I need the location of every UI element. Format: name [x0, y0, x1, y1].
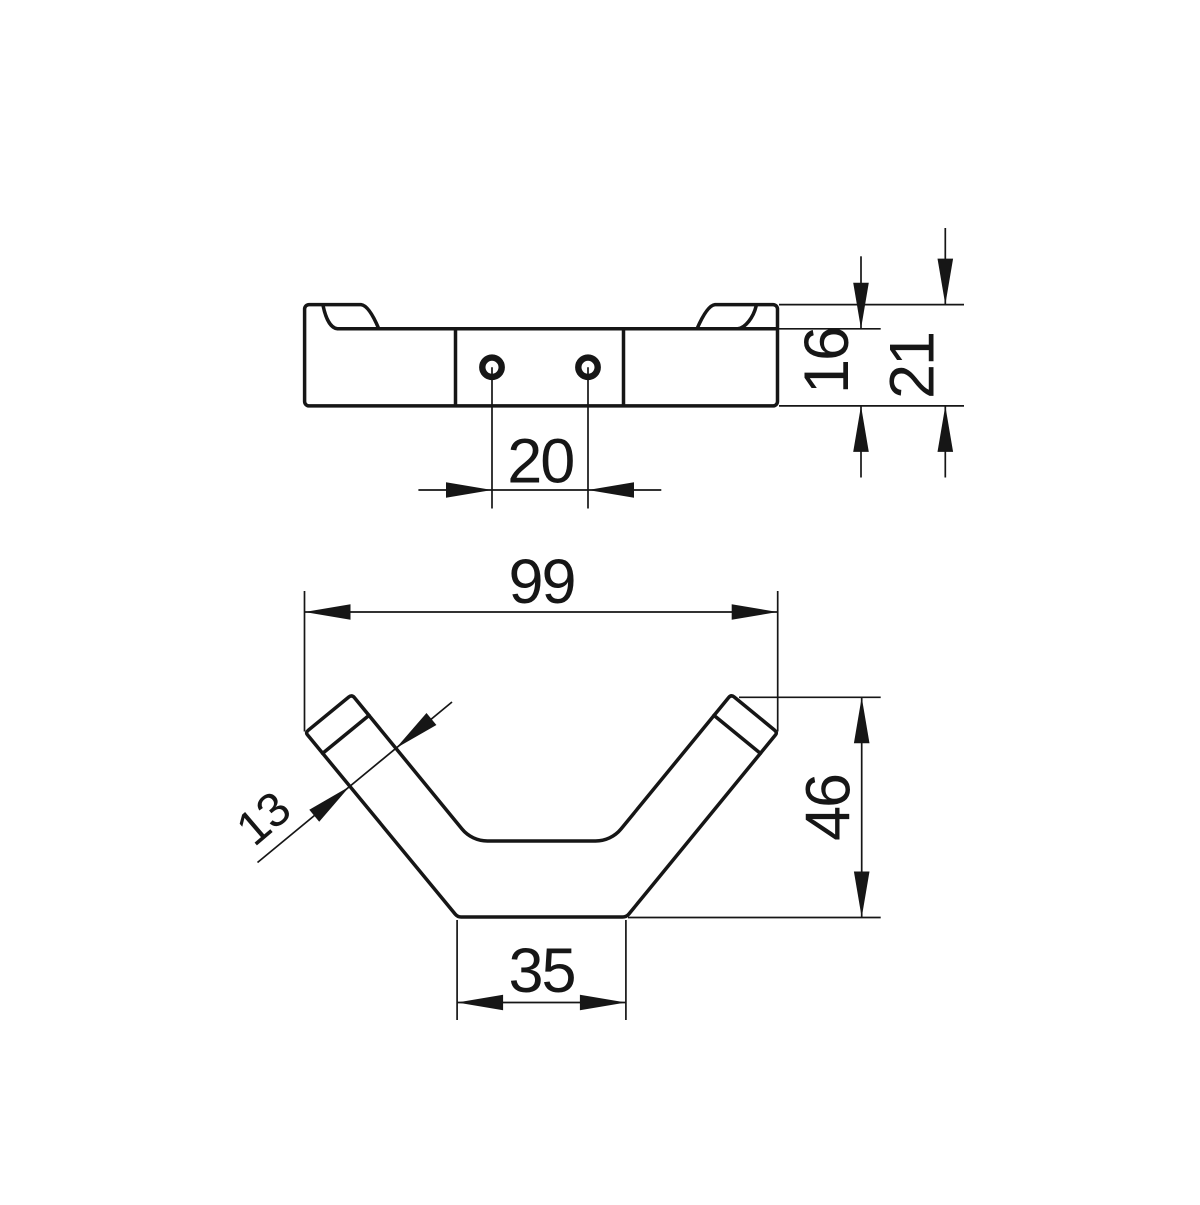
dim 46 extension bottom — [628, 917, 881, 919]
svg-text:46: 46 — [794, 775, 864, 841]
top view center plate left edge — [454, 330, 458, 405]
dim 35 line — [457, 1002, 626, 1004]
dim 35 arrow right — [580, 995, 626, 1011]
dim 35 extension right — [625, 920, 627, 1020]
svg-text:16: 16 — [792, 328, 862, 394]
extension line step (16) — [779, 328, 881, 330]
dim 99 extension left — [304, 591, 306, 732]
svg-text:21: 21 — [878, 333, 948, 399]
dim 13 leader line — [258, 702, 453, 863]
front view hook silhouette — [307, 696, 777, 917]
dim 20 extension line right — [587, 367, 589, 508]
front view right tip chamfer line — [714, 715, 760, 753]
dim 20 arrow right — [588, 482, 634, 498]
dim 99 extension right — [777, 591, 779, 732]
svg-text:35: 35 — [508, 936, 574, 1006]
dim 21 line lower — [944, 406, 946, 478]
extension line top (21) — [779, 304, 964, 306]
hole left — [482, 358, 501, 377]
top view center plate right edge — [622, 330, 626, 405]
dim 16 arrow upper — [853, 283, 869, 329]
dim 35 arrow left — [457, 995, 503, 1011]
dim 46 extension top — [739, 696, 881, 698]
top view step edge right end — [697, 306, 756, 329]
dim 21 arrow upper — [938, 259, 954, 305]
dim 21 line upper — [944, 228, 946, 305]
dim 13 arrow lower — [309, 786, 349, 821]
dim 46 line — [861, 697, 863, 917]
hole right — [578, 358, 597, 377]
top view outer silhouette — [305, 305, 778, 406]
dim 99 line — [305, 611, 778, 613]
dim 21 arrow lower — [938, 406, 954, 452]
svg-text:99: 99 — [508, 547, 574, 617]
top view step edge left end — [323, 306, 379, 329]
extension line bottom of top view — [779, 405, 964, 407]
dim 46 arrow top — [854, 697, 870, 743]
front view left tip chamfer line — [323, 715, 369, 753]
dim 99 arrow left — [305, 604, 351, 620]
dim 20 extension line left — [491, 367, 493, 508]
dim 13 arrow upper — [396, 713, 437, 748]
dim 35 extension left — [456, 920, 458, 1020]
dim 16 line upper — [860, 256, 862, 329]
dim 20 arrow left — [446, 482, 492, 498]
dim 20 line — [418, 489, 661, 491]
dim 99 arrow right — [732, 604, 778, 620]
svg-text:20: 20 — [507, 427, 573, 497]
top view step edge under right tab — [738, 327, 776, 331]
dim 46 arrow bottom — [854, 872, 870, 918]
dim 16 arrow lower — [853, 406, 869, 452]
dim 16 line lower — [860, 406, 862, 478]
